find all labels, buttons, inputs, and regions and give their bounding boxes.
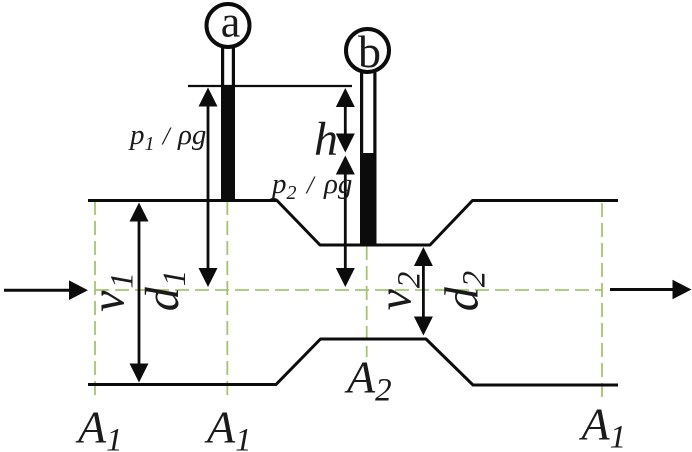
dimension arrow h (x=345.3, y 88..152.5) — [336, 88, 355, 153]
circle label b — [346, 26, 389, 77]
dashed section line A1 left (x=95) — [94, 201, 96, 400]
piezometer tube b liquid column — [360, 153, 377, 246]
piezometer tube a liquid column — [221, 85, 235, 202]
pipe top wall — [88, 201, 618, 246]
svg-text:p1 / ρg: p1 / ρg — [128, 119, 206, 155]
dimension arrow p2 (x=345.3, y 155.5..287) — [336, 156, 355, 288]
dashed section line A1 right (x=602) — [601, 203, 603, 400]
water level line — [188, 85, 352, 87]
svg-text:a: a — [221, 0, 241, 47]
pipe bottom wall — [88, 339, 618, 385]
dimension arrow d1 (x=139, y 202.5..382.5) — [130, 203, 149, 383]
svg-text:h: h — [314, 113, 338, 166]
dashed centerline (y=290) — [95, 289, 602, 291]
outlet flow arrow — [610, 280, 692, 300]
piezometer tube b walls — [362, 70, 375, 154]
dashed section line under tube b (x=366.7) — [366, 246, 368, 357]
piezometer tube a walls — [223, 45, 234, 86]
dimension arrow p1 head (x=208, y 87..287) — [199, 88, 218, 288]
circle label a — [207, 0, 250, 47]
inlet flow arrow — [4, 280, 88, 300]
svg-text:b: b — [358, 26, 381, 77]
svg-text:p2 / ρg: p2 / ρg — [270, 168, 352, 204]
dimension arrow v2/d2 (x=423.4, y 247..335.5) — [414, 247, 433, 336]
dashed section line under tube a (x=227.3) — [226, 201, 228, 400]
